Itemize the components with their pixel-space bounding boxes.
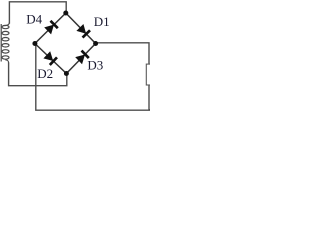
resistor RL load box (cropped at right edge)	[146, 64, 154, 85]
svg-text:D1: D1	[94, 14, 110, 29]
wire: load bottom lead to bottom rail	[148, 85, 150, 110]
diode D3 (bottom node to right node)	[75, 51, 89, 65]
svg-text:D3: D3	[87, 58, 103, 73]
wire: top rail from transformer to top node	[9, 2, 66, 24]
diode bridge arms	[35, 13, 96, 74]
diode D4 (left node to top node)	[44, 21, 58, 35]
svg-text:D4: D4	[26, 12, 42, 27]
wire: right rail from right node to load	[96, 43, 149, 64]
transformer T1 secondary bottom lead curve	[5, 60, 8, 63]
wire: bottom AC lead to bottom node	[9, 63, 67, 86]
svg-text:D2: D2	[37, 66, 53, 81]
wire: arm bottom node to right node	[66, 44, 95, 74]
transformer core line (cropped at left edge)	[0, 24, 2, 62]
wire: arm left node to top node	[35, 13, 66, 44]
transformer T1 secondary winding loops	[2, 25, 9, 59]
wire: arm left node to bottom node	[35, 44, 67, 74]
diode D1 (top node to right node)	[76, 24, 90, 38]
node bottom junction dot	[64, 71, 69, 76]
transformer T1 secondary top lead curve	[3, 23, 9, 26]
node right junction dot	[93, 41, 98, 46]
wire: left output vertical from left node down to bottom rail	[36, 44, 150, 111]
wire: arm top node to right node	[66, 13, 96, 44]
node top junction dot	[63, 11, 68, 16]
node left junction dot	[32, 41, 37, 46]
diode D2 (left node to bottom node)	[43, 51, 57, 65]
